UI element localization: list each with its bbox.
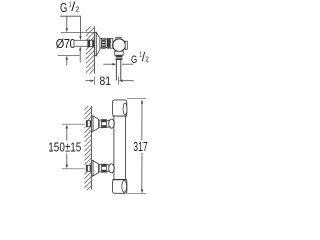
dimension Ø70 bottom extension line — [58, 55, 80, 57]
lower union: white gap in wall — [85, 165, 92, 172]
union ring A — [100, 39, 102, 48]
svg-text:2: 2 — [75, 4, 79, 13]
dimension 317 top extension line — [127, 98, 146, 100]
escutcheon plate (side view) — [94, 32, 96, 55]
dimension 150±15 line + arrows — [66, 124, 68, 168]
lower union threaded block — [86, 165, 91, 171]
knob circle (side view) — [113, 39, 126, 52]
dimension Ø70 top extension line — [61, 32, 95, 34]
upper union nut — [102, 120, 107, 128]
top cap ellipse — [123, 103, 127, 115]
lower union ring A — [99, 165, 102, 172]
dimension 150±15 bottom extension line — [62, 168, 87, 170]
upper escutcheon plate — [91, 116, 93, 131]
body tube — [113, 116, 115, 180]
dimension 81: right arrow — [119, 80, 134, 82]
lower escutcheon cone — [93, 161, 98, 176]
dimension 317 bottom extension line — [127, 193, 146, 195]
dimension 81: right extension tick — [118, 77, 120, 85]
svg-text:Ø70: Ø70 — [56, 36, 76, 51]
union ring B — [105, 39, 107, 48]
upper union dome — [109, 119, 115, 128]
dimension 317 line + arrows — [141, 99, 143, 193]
escutcheon cone (side view) — [96, 32, 100, 55]
dimension 81: left extension tick — [94, 77, 96, 85]
inlet pipe (side view) through wall — [74, 40, 94, 46]
top cap — [113, 100, 127, 116]
svg-text:317: 317 — [133, 140, 148, 154]
dimension 81: left arrow — [86, 80, 95, 82]
outlet pipe down — [115, 60, 117, 80]
wall surface line (side view) — [93, 26, 95, 73]
lower union dome — [109, 164, 115, 173]
threaded block in wall — [87, 40, 90, 48]
dimension Ø70 top arrow — [66, 16, 68, 32]
dimension Ø70 bottom arrow — [66, 56, 68, 66]
valve collar — [107, 38, 113, 48]
wall surface line (front view) — [90, 106, 92, 190]
lower union ring B — [106, 165, 109, 172]
svg-text:150±15: 150±15 — [48, 141, 81, 155]
upper union ring A — [99, 120, 102, 127]
lower union nut — [102, 164, 107, 172]
outlet fitting below knob — [115, 51, 124, 55]
bottom cap ellipse — [122, 181, 127, 193]
wall (side view) hatching — [82, 11, 97, 86]
label G 1/2 (top) arrow to pipe — [79, 36, 81, 40]
svg-text:G: G — [60, 1, 67, 15]
svg-text:81: 81 — [100, 74, 112, 88]
upper escutcheon cone — [93, 116, 98, 131]
upper union: white gap in wall — [85, 120, 92, 127]
lower escutcheon plate — [91, 161, 93, 176]
union nut — [102, 38, 106, 48]
knob face bar — [125, 41, 127, 49]
G 1/2 bottom arrow (pipe diameter) — [79, 46, 81, 62]
upper union ring B — [106, 120, 109, 127]
bottom cap — [113, 180, 127, 194]
svg-text:2: 2 — [145, 56, 149, 63]
knob top cap (side view) — [116, 37, 121, 39]
wall (front view) hatching — [79, 89, 96, 203]
label G 1/2 (top) leader line — [60, 16, 80, 36]
label G 1/2 (right) leader — [122, 63, 133, 65]
dimension 150±15 top extension line — [62, 123, 87, 125]
label G 1/2 (right) arrow — [103, 63, 116, 65]
upper union threaded block — [86, 121, 91, 127]
